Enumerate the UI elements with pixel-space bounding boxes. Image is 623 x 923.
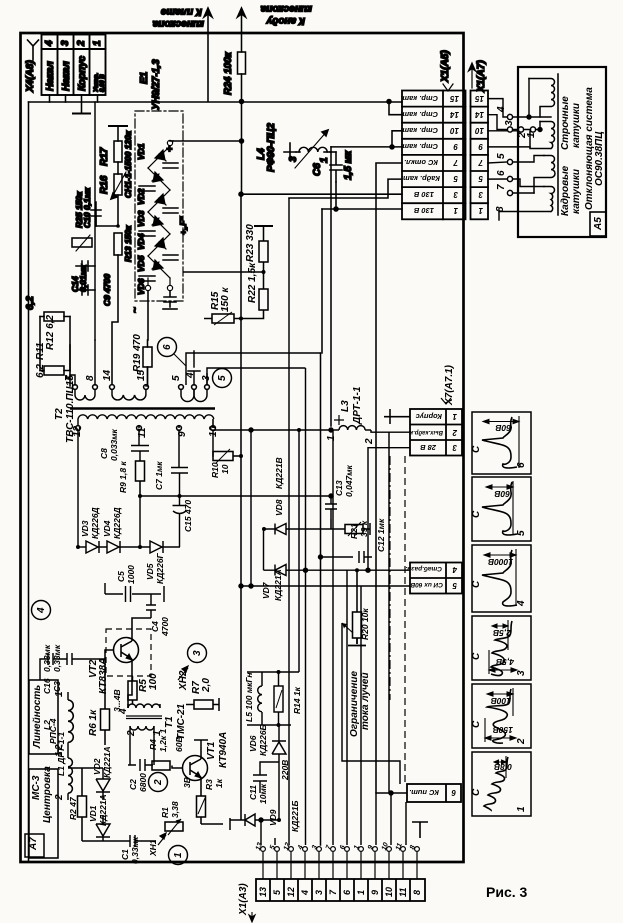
circled 6 — [158, 338, 177, 357]
svg-text:8,60 В: 8,60 В — [100, 74, 106, 92]
coil кадровая 1 — [534, 156, 555, 194]
svg-text:1,2к 1: 1,2к 1 — [158, 729, 168, 752]
svg-text:2: 2 — [153, 779, 164, 786]
junction — [239, 584, 243, 588]
diode VD9 КД221Б — [230, 814, 279, 826]
svg-text:0,33мк: 0,33мк — [52, 644, 62, 672]
capacitor column right 2 — [163, 208, 178, 213]
junction — [178, 494, 182, 498]
inductor L1 ДРТ-1-1 — [68, 758, 72, 793]
wire diode row y547 — [78, 546, 86, 548]
svg-text:А5: А5 — [593, 217, 604, 231]
X1(A3) stub labels — [255, 842, 417, 852]
arrow XН2 — [178, 666, 188, 680]
wire row5 — [241, 585, 410, 587]
junction — [240, 139, 244, 143]
svg-text:КД221А: КД221А — [98, 794, 108, 826]
svg-text:7: 7 — [478, 158, 483, 167]
svg-text:4: 4 — [118, 708, 129, 715]
diode VD4 — [107, 541, 150, 553]
svg-text:Т1: Т1 — [164, 716, 175, 728]
main board A7 border frame — [21, 33, 464, 862]
deflection unit A5 box — [518, 67, 606, 237]
capacitor C7 1мк — [171, 468, 188, 497]
wire VD8 node down to row4 — [263, 529, 265, 570]
svg-text:3: 3 — [504, 120, 515, 126]
svg-text:2: 2 — [364, 438, 375, 445]
svg-text:12: 12 — [286, 887, 296, 897]
svg-text:XН1: XН1 — [148, 839, 158, 857]
svg-text:МС-3: МС-3 — [31, 775, 42, 800]
capacitors C16 C3 0,33мк — [40, 653, 105, 680]
wire row1 vertical down — [320, 353, 322, 845]
junction — [116, 224, 120, 228]
svg-text:4: 4 — [452, 565, 458, 574]
terminal circle 1 — [530, 127, 535, 132]
wire X1(A7) pin 7 — [488, 162, 507, 163]
svg-text:VD4: VD4 — [102, 520, 112, 537]
wires left from T2 primary — [70, 375, 75, 385]
svg-text:130 В: 130 В — [413, 190, 434, 199]
svg-text:4: 4 — [300, 890, 310, 896]
wire node y226 — [96, 225, 118, 227]
svg-text:R24 100к: R24 100к — [223, 51, 234, 95]
capacitor C in chain left 1 — [139, 186, 155, 191]
block МС-3 Центровка — [29, 769, 58, 858]
svg-text:Линейность: Линейность — [32, 685, 43, 749]
svg-text:3: 3 — [314, 890, 324, 895]
junction — [319, 555, 323, 559]
rows 4-5 — [410, 563, 462, 594]
wire pin3 down — [65, 95, 67, 102]
svg-text:VD9: VD9 — [268, 809, 278, 826]
diode VD1 — [148, 146, 170, 168]
terminal circle 7 — [507, 190, 512, 195]
svg-text:8: 8 — [412, 890, 422, 895]
diode VD5 — [148, 234, 170, 256]
junction — [138, 545, 142, 549]
svg-text:5: 5 — [478, 174, 483, 183]
row 6 — [407, 784, 461, 802]
svg-text:R10: R10 — [210, 462, 220, 478]
wire pins 5,3 horizontals — [206, 374, 208, 385]
diode VD6 КД226Б — [272, 725, 286, 762]
svg-text:КТ838А: КТ838А — [98, 658, 109, 694]
resistor R21 39к — [331, 519, 370, 536]
junction — [355, 568, 359, 572]
wire term8 — [498, 212, 500, 221]
wire E1 bottom left to R19 — [147, 291, 149, 340]
svg-text:10: 10 — [384, 887, 394, 897]
E1 multiplier dash-dot box — [135, 111, 183, 301]
wire X1(A7) pin 5 — [488, 178, 507, 180]
junction — [239, 192, 243, 196]
T2 core — [70, 407, 215, 409]
oscillogram 6 waveform — [482, 416, 519, 468]
svg-text:Т2: Т2 — [54, 408, 65, 420]
wire pin2 to ground — [81, 95, 83, 113]
svg-text:6: 6 — [162, 344, 173, 350]
wire row7 to KC bus — [376, 163, 402, 793]
svg-text:X1(А5): X1(А5) — [440, 50, 451, 83]
resistor R23 330 — [254, 226, 273, 272]
svg-text:VD5: VD5 — [145, 563, 155, 580]
X1(A3) cell numbers — [258, 887, 422, 897]
svg-text:7: 7 — [453, 158, 458, 167]
terminal circle 3 — [507, 127, 512, 132]
wire row2 to L3 — [371, 430, 410, 432]
wire X1(A7) pin 10 — [488, 130, 518, 132]
capacitor C1 0,33мк — [82, 835, 155, 847]
svg-text:Стр. кат.: Стр. кат. — [400, 126, 438, 135]
svg-text:СИ их 60В: СИ их 60В — [410, 581, 443, 588]
node top circle — [167, 140, 172, 145]
svg-text:R6 1к: R6 1к — [88, 709, 99, 736]
svg-text:Корпус: Корпус — [77, 55, 88, 91]
block A7 designator — [25, 834, 44, 857]
wire T2 pin12 down — [77, 430, 79, 547]
junction — [390, 145, 394, 149]
wire y496 bus — [140, 495, 331, 497]
svg-text:3,38: 3,38 — [170, 801, 180, 818]
wire pin1 down — [97, 95, 99, 102]
resistor R17 — [114, 141, 122, 162]
junction — [239, 454, 243, 458]
svg-text:VD5: VD5 — [136, 255, 146, 272]
node bottom circles — [145, 285, 150, 290]
wire L4 pin1 down and bus — [330, 151, 336, 153]
svg-text:0,01мк: 0,01мк — [78, 264, 88, 292]
svg-text:С9 4700: С9 4700 — [102, 274, 112, 306]
diode VD7 КД221А — [264, 565, 287, 576]
svg-text:Кадровые: Кадровые — [560, 165, 571, 216]
terminal circle 4 — [507, 114, 512, 119]
A5 inner divider — [557, 74, 559, 215]
svg-text:R16: R16 — [99, 175, 110, 194]
wires from circled5/6 region to right — [186, 353, 321, 385]
svg-text:1: 1 — [92, 40, 103, 46]
svg-text:1: 1 — [356, 890, 366, 895]
svg-text:7: 7 — [496, 184, 507, 190]
svg-text:С11: С11 — [248, 785, 258, 800]
transistor VT2 КТ838А dashed box — [106, 629, 151, 676]
terminal circle 6 — [507, 176, 512, 181]
svg-text:С4: С4 — [150, 621, 160, 632]
ground mark in E1 — [163, 308, 177, 310]
svg-text:Вых.кадр.к.: Вых.кадр.к. — [408, 429, 443, 435]
svg-text:1: 1 — [54, 751, 65, 757]
svg-text:R1: R1 — [160, 807, 170, 818]
wire row14 drop — [389, 102, 402, 115]
svg-text:5: 5 — [496, 153, 507, 159]
svg-text:3: 3 — [288, 156, 299, 162]
bottom connector X1(A3) — [256, 879, 425, 901]
wire pin10 drop to rows — [250, 430, 252, 586]
resistor R25 (trimmer) — [72, 238, 92, 247]
svg-text:3: 3 — [478, 190, 483, 199]
connector X1(A5) table — [402, 91, 466, 220]
svg-text:150В: 150В — [493, 725, 513, 735]
T2 primary winding 5-4-3 — [179, 385, 184, 390]
svg-text:1: 1 — [54, 691, 65, 697]
svg-text:РФ90-ПЦ2: РФ90-ПЦ2 — [266, 123, 277, 172]
svg-text:6,2: 6,2 — [35, 364, 46, 378]
svg-text:5: 5 — [452, 581, 457, 590]
oscillogram 4 waveform — [482, 549, 517, 606]
svg-text:R23 330: R23 330 — [245, 224, 256, 262]
svg-text:X1(А7): X1(А7) — [476, 60, 487, 93]
oscillogram 1 waveform — [484, 756, 508, 811]
diode VD2 КД221А — [68, 768, 110, 800]
svg-text:130 В: 130 В — [413, 206, 434, 215]
svg-text:2: 2 — [452, 428, 458, 437]
svg-text:15: 15 — [136, 369, 147, 381]
svg-text:14: 14 — [475, 110, 484, 119]
wire row9 to L3 vertical — [330, 147, 332, 426]
svg-text:8: 8 — [495, 206, 506, 212]
svg-text:1: 1 — [452, 412, 457, 421]
svg-text:6: 6 — [516, 462, 527, 468]
svg-text:R21: R21 — [349, 523, 359, 539]
svg-text:УН9/27-1,3: УН9/27-1,3 — [151, 59, 162, 110]
capacitor C9 4700 — [76, 285, 95, 295]
svg-text:R3: R3 — [204, 779, 214, 790]
svg-text:С: С — [471, 445, 482, 453]
capacitor C4 4700 — [146, 594, 156, 618]
svg-text:0,8В: 0,8В — [494, 762, 512, 772]
junction — [304, 568, 308, 572]
X1(A3) pin stubs and circles — [261, 847, 420, 879]
svg-text:VT1: VT1 — [206, 741, 217, 760]
svg-text:5: 5 — [516, 530, 527, 536]
capacitor C15 470 — [173, 496, 187, 547]
svg-text:7: 7 — [64, 375, 75, 381]
T2 secondary — [76, 426, 81, 431]
resistor R5 100 — [128, 676, 137, 704]
coil строчная 1 — [529, 79, 555, 118]
junction — [76, 545, 80, 549]
svg-text:К аноду: К аноду — [266, 15, 305, 26]
svg-text:VD3: VD3 — [80, 520, 90, 537]
svg-text:3: 3 — [60, 40, 71, 46]
diode multiplier chain VD1-VD6 — [145, 140, 172, 290]
transistor VT1 КТ940А — [172, 747, 208, 790]
svg-text:С7 1мк: С7 1мк — [154, 461, 164, 490]
svg-text:R13 150к: R13 150к — [123, 225, 133, 262]
resistor R11 6,2 — [44, 366, 64, 375]
junction row15 — [387, 100, 391, 104]
svg-text:Стр. кат.: Стр. кат. — [400, 94, 438, 103]
diode VD5 КД226Г — [150, 541, 180, 553]
svg-text:2: 2 — [76, 40, 87, 47]
svg-text:КД221А: КД221А — [273, 569, 283, 601]
svg-text:VD7: VD7 — [261, 581, 271, 599]
svg-text:Стр. кат.: Стр. кат. — [400, 142, 438, 151]
svg-text:КД226Б: КД226Б — [258, 724, 268, 756]
wire left inner drop — [28, 102, 30, 862]
svg-text:КД221В: КД221В — [274, 457, 284, 489]
oscillogram boxes column — [472, 412, 531, 816]
svg-text:R22 1,5к: R22 1,5к — [247, 262, 258, 303]
wire pin10 to right — [215, 429, 331, 431]
junction — [389, 791, 393, 795]
resistor R24 100к — [238, 52, 246, 74]
svg-text:15: 15 — [450, 94, 459, 103]
svg-text:1: 1 — [326, 435, 337, 441]
junction — [262, 270, 266, 274]
svg-text:VD6: VD6 — [248, 735, 258, 752]
wire row1 130V bus — [322, 208, 402, 210]
svg-text:XН2: XН2 — [178, 670, 189, 691]
svg-text:1: 1 — [453, 206, 458, 215]
resistor R15 150к — [204, 312, 241, 325]
wire R9 to diode row — [139, 496, 141, 547]
svg-text:1,5 мк: 1,5 мк — [343, 150, 354, 180]
resistor R1 3,38 — [165, 819, 183, 835]
svg-text:VD1: VD1 — [136, 143, 146, 160]
svg-text:4: 4 — [44, 40, 55, 47]
svg-text:Е1: Е1 — [139, 71, 150, 84]
wire row6 node — [391, 793, 407, 845]
svg-text:катушки: катушки — [571, 103, 582, 148]
wire bar to R17 — [117, 126, 119, 141]
wire horizontal bus y102 — [29, 101, 403, 103]
svg-text:Стр. кат.: Стр. кат. — [400, 110, 438, 119]
svg-text:ТМС-21: ТМС-21 — [176, 703, 187, 740]
diode VD6 — [148, 256, 170, 278]
svg-text:10: 10 — [220, 464, 230, 474]
svg-text:60В: 60В — [494, 489, 510, 499]
dashed border — [404, 456, 406, 784]
svg-text:КД221А: КД221А — [102, 746, 112, 778]
wire y351 — [186, 353, 321, 385]
ground at X4 pin2 — [73, 113, 90, 115]
resistor R9 1,8к — [136, 461, 145, 496]
T2 primary winding 7-8 — [73, 385, 78, 390]
svg-text:катушки: катушки — [571, 169, 582, 214]
svg-text:кинескопа: кинескопа — [152, 18, 204, 29]
capacitor column right 1 — [163, 163, 178, 168]
svg-text:КД226Г: КД226Г — [155, 552, 165, 584]
oscillogram 5 waveform — [482, 481, 517, 535]
diode VD4 — [148, 212, 170, 234]
junction — [297, 428, 301, 432]
resistor R12 6,2 — [44, 312, 64, 321]
wire term4 line into coil1 — [513, 116, 551, 118]
circled 5 — [213, 369, 232, 388]
pins X1(A5) numbers — [450, 94, 484, 215]
svg-text:14: 14 — [450, 110, 459, 119]
resistor R19 470 — [143, 347, 152, 367]
transistor VT2 — [105, 618, 151, 708]
svg-text:2: 2 — [516, 738, 527, 745]
resistor R7 2,0 — [186, 698, 219, 711]
circled 2 — [149, 773, 168, 792]
capacitor E1 bottom right — [164, 291, 176, 307]
circled 3 — [188, 644, 207, 663]
svg-text:1000В: 1000В — [488, 557, 513, 567]
block Линейность L2 РПС-4 — [29, 680, 58, 754]
svg-text:R19 470: R19 470 — [132, 334, 143, 372]
svg-text:R4: R4 — [148, 739, 158, 750]
svg-text:кинескопа: кинескопа — [260, 3, 312, 14]
vertical bus x241 — [240, 194, 242, 820]
wire + node to R24 — [170, 140, 173, 142]
oscillogram 2 waveform — [485, 688, 516, 743]
svg-text:+„F“: +„F“ — [178, 216, 188, 235]
resistor R2 47 — [78, 768, 87, 841]
junction — [249, 584, 253, 588]
vertical long buses center — [94, 102, 96, 340]
svg-text:А7: А7 — [28, 837, 39, 851]
arrow К аноду кинескопа — [238, 8, 246, 17]
svg-text:3В: 3В — [182, 777, 192, 788]
inductor L4 РФ90-ПЦ2 — [284, 143, 296, 160]
wire term7 — [513, 192, 534, 194]
svg-text:С10 0,1мк: С10 0,1мк — [82, 187, 92, 228]
svg-text:4: 4 — [36, 607, 47, 614]
circled 1 — [169, 846, 188, 865]
svg-text:VD3: VD3 — [136, 210, 146, 227]
svg-text:5: 5 — [217, 375, 228, 381]
wire term3-2-1 row — [513, 129, 540, 131]
svg-text:С15 470: С15 470 — [183, 500, 193, 532]
arrow XН1 — [158, 833, 166, 845]
capacitor C6 1,5мк — [330, 152, 342, 182]
svg-text:Рис. 3: Рис. 3 — [486, 884, 528, 900]
svg-text:11: 11 — [398, 888, 408, 897]
capacitor C in chain left 3 — [139, 276, 155, 281]
X7 wires — [239, 368, 410, 845]
svg-text:R12 6,2: R12 6,2 — [45, 315, 56, 350]
svg-text:R17: R17 — [99, 147, 110, 166]
resistor R20 10к — [342, 570, 366, 645]
T2 primary winding 14-15 — [110, 385, 115, 390]
wire pin4 down — [49, 95, 51, 102]
svg-text:4: 4 — [496, 106, 507, 113]
svg-text:С1: С1 — [120, 849, 130, 860]
svg-text:X4(А8): X4(А8) — [25, 60, 36, 93]
wire term6 — [513, 179, 544, 187]
resistor R3 1к — [197, 790, 231, 830]
wire R24 bottom to multiplier + — [173, 74, 242, 141]
svg-text:Центровка: Центровка — [42, 766, 53, 823]
inductor L2 coil — [68, 700, 73, 742]
pin numbers X7 — [451, 412, 458, 797]
svg-text:Ограничение: Ограничение — [349, 671, 360, 737]
svg-text:С13: С13 — [334, 480, 344, 496]
svg-text:4,5В: 4,5В — [496, 657, 515, 667]
svg-text:5: 5 — [453, 174, 458, 183]
wire X1(A7) pin 9 — [488, 146, 530, 148]
svg-text:X1(А3): X1(А3) — [238, 883, 249, 916]
resistor R13 150к — [114, 233, 122, 255]
svg-text:3: 3 — [516, 670, 527, 676]
svg-text:6,2: 6,2 — [25, 296, 36, 310]
svg-text:С: С — [471, 720, 482, 728]
svg-text:КС откл.: КС откл. — [404, 158, 438, 167]
svg-text:Кадр. кат.: Кадр. кат. — [401, 174, 440, 183]
inductor L5 100мкГн with resistor — [247, 672, 299, 725]
wire term5 into coil3 — [513, 156, 544, 163]
svg-text:2: 2 — [54, 794, 65, 801]
resistor R10 10 — [213, 449, 241, 463]
svg-text:60В: 60В — [174, 736, 184, 752]
svg-text:3: 3 — [453, 190, 458, 199]
X1(A5) row labels (rotated 180) — [400, 94, 484, 215]
svg-text:R14 1к: R14 1к — [292, 686, 302, 714]
svg-text:1: 1 — [173, 852, 184, 858]
